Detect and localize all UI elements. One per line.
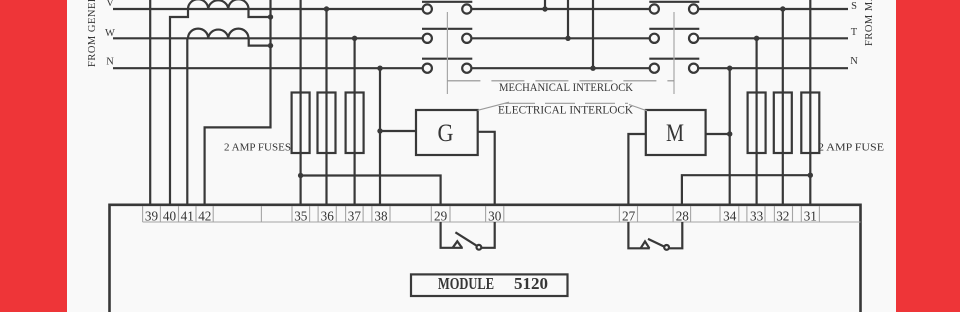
relay contact switch below terminals 27-28 xyxy=(628,222,682,250)
svg-text:39: 39 xyxy=(145,208,159,223)
svg-text:FROM GENERATOR: FROM GENERATOR xyxy=(87,0,98,67)
wire: fuse feed U phase to terminal 35 xyxy=(300,0,302,205)
node: fuse F2 tap on V xyxy=(324,6,329,11)
coil box M xyxy=(646,110,706,155)
red band right xyxy=(896,0,960,312)
wire: CT-V secondary left step to terminal 40 xyxy=(170,10,188,206)
wire: branch 31 to terminal 28 xyxy=(682,175,810,205)
mechanical linkage line M xyxy=(673,12,675,94)
contactor M pole3 contacts xyxy=(650,64,659,73)
wire: load bus row2 between contactors xyxy=(471,37,649,39)
svg-text:38: 38 xyxy=(374,208,388,223)
wire: generator line W row2 xyxy=(113,37,423,39)
mechanical interlock dashed line xyxy=(447,80,674,82)
svg-text:42: 42 xyxy=(198,208,211,223)
wire: fuse feed R phase to terminal 31 xyxy=(809,0,811,205)
terminal numbers xyxy=(145,208,817,223)
wire: CT common vertical with elbow to terminal 42 xyxy=(205,0,271,205)
svg-text:33: 33 xyxy=(750,208,764,223)
wire: fuse feed from T to terminal 33 xyxy=(755,38,757,205)
wire: CT-W secondary right step to common xyxy=(249,39,271,46)
svg-text:35: 35 xyxy=(294,208,308,223)
fuse F6 (right, 2A) xyxy=(801,93,819,154)
wire: fuse feed from V to terminal 36 xyxy=(325,9,327,205)
svg-text:W: W xyxy=(105,28,115,39)
leader to M coil xyxy=(629,105,647,111)
svg-text:MODULE: MODULE xyxy=(438,274,494,293)
contactor M pole1 contacts xyxy=(650,4,659,13)
node: load takeoff 1 xyxy=(542,6,547,11)
svg-text:27: 27 xyxy=(622,208,636,223)
svg-text:37: 37 xyxy=(348,208,362,223)
fuse F5 (right, 2A) xyxy=(774,93,792,154)
wire: N branch to G coil and terminal 38 xyxy=(379,68,381,205)
node: load takeoff 3 xyxy=(590,66,595,71)
wire: M coil right feed xyxy=(706,133,730,135)
relay contact switch below terminals 29-30 xyxy=(441,222,495,250)
wire: G coil right to terminal 30 xyxy=(478,132,495,205)
svg-text:T: T xyxy=(851,27,858,38)
coil box G xyxy=(416,110,478,155)
svg-text:40: 40 xyxy=(163,208,177,223)
svg-text:30: 30 xyxy=(488,208,502,223)
node: N tap for G coil xyxy=(377,66,382,71)
wire: G coil left feed xyxy=(380,130,416,132)
svg-text:MECHANICAL INTERLOCK: MECHANICAL INTERLOCK xyxy=(499,80,633,94)
current transformer CT-V coil on line V xyxy=(188,0,249,9)
node: terminal28 branch on fuse wire xyxy=(808,173,813,178)
svg-text:41: 41 xyxy=(181,208,194,223)
wire: load takeoff phase 3 xyxy=(592,0,594,68)
fuse F3 (left, 2A) xyxy=(346,93,364,154)
svg-text:29: 29 xyxy=(434,208,448,223)
svg-text:28: 28 xyxy=(676,208,690,223)
leader to G coil xyxy=(478,102,509,110)
electrical interlock dashed line xyxy=(505,102,628,104)
wire: mains line T row2 xyxy=(698,37,848,39)
wire: load bus row1 between contactors xyxy=(471,8,649,10)
svg-text:N: N xyxy=(850,56,858,67)
wire: branch 35 to terminal 29 xyxy=(301,176,441,206)
fuse F2 (left, 2A) xyxy=(318,93,336,154)
module name box xyxy=(411,274,568,296)
wire: generator line N row3 xyxy=(113,67,423,69)
terminal strip bottom line xyxy=(143,221,861,223)
contactor G pole2 bridge bar xyxy=(422,28,472,30)
node: G coil branch xyxy=(377,128,382,133)
terminal strip separators xyxy=(143,206,820,222)
wire: mains line N row3 xyxy=(698,67,848,69)
svg-text:FROM MAINS: FROM MAINS xyxy=(864,0,875,46)
contactor G pole2 contacts xyxy=(423,34,432,43)
svg-text:S: S xyxy=(851,1,857,12)
svg-text:36: 36 xyxy=(321,208,335,223)
contactor M pole3 bridge bar xyxy=(649,58,699,60)
wire: M coil left to terminal 27 xyxy=(628,134,645,205)
node: CT-V right on common xyxy=(268,14,273,19)
wire: load takeoff phase 1 xyxy=(544,0,546,9)
contactor G pole3 contacts xyxy=(423,64,432,73)
module 5120 box outline xyxy=(110,205,861,312)
svg-text:2 AMP FUSE: 2 AMP FUSE xyxy=(818,142,884,154)
node: terminal29 branch on fuse wire xyxy=(298,173,303,178)
svg-text:2 AMP FUSES: 2 AMP FUSES xyxy=(224,142,291,154)
svg-text:M: M xyxy=(666,118,684,147)
fuse F4 (right, 2A) xyxy=(748,93,766,154)
svg-text:31: 31 xyxy=(804,208,817,223)
wire: load bus row3 between contactors xyxy=(471,67,649,69)
wire: mains N branch to M coil and terminal 34 xyxy=(729,68,731,205)
svg-text:34: 34 xyxy=(723,208,737,223)
wire: fuse feed from S to terminal 32 xyxy=(782,9,784,205)
wire: generator line V row1 xyxy=(113,8,423,10)
svg-text:5120: 5120 xyxy=(514,274,548,293)
svg-text:N: N xyxy=(106,57,114,68)
svg-text:G: G xyxy=(438,118,454,147)
contactor G pole3 bridge bar xyxy=(422,58,472,60)
node: CT-W right on common xyxy=(268,43,273,48)
node: mains N tap for M coil xyxy=(727,66,732,71)
fuse F1 (left, 2A) xyxy=(292,93,310,154)
wire: fuse feed from W to terminal 37 xyxy=(354,38,356,205)
contactor M pole2 bridge bar xyxy=(649,28,699,30)
wire: CT-V secondary right step to common xyxy=(249,10,271,18)
mechanical linkage line G xyxy=(446,12,448,94)
contactor G pole1 bridge bar xyxy=(422,1,472,3)
svg-text:ELECTRICAL INTERLOCK: ELECTRICAL INTERLOCK xyxy=(498,103,633,117)
contactor M pole1 bridge bar xyxy=(649,1,699,3)
node: M coil branch xyxy=(727,131,732,136)
node: load takeoff 2 xyxy=(565,36,570,41)
svg-text:32: 32 xyxy=(776,208,789,223)
wire: mains line S row1 xyxy=(698,8,848,10)
node: fuse F5 tap on S xyxy=(780,6,785,11)
node: fuse F4 tap on T xyxy=(754,36,759,41)
red band left xyxy=(0,0,67,312)
current transformer CT-W coil on line W xyxy=(188,29,249,39)
contactor M pole2 contacts xyxy=(650,34,659,43)
node: fuse F3 tap on W xyxy=(352,36,357,41)
contactor G pole1 contacts xyxy=(423,4,432,13)
wire: load takeoff phase 2 xyxy=(567,0,569,38)
wire: CT-W secondary left drop to terminal 41 xyxy=(186,39,188,205)
svg-text:V: V xyxy=(106,0,114,9)
wire: CT U-phase left secondary drop to terminal 39 xyxy=(149,0,151,205)
